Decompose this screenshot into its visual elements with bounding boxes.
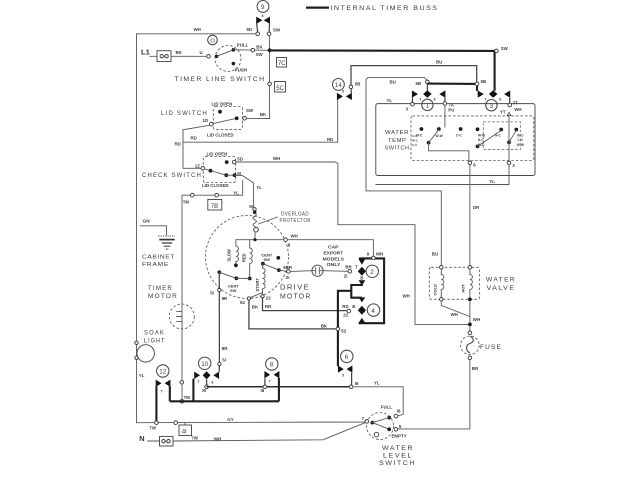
svg-text:PROTECTOR: PROTECTOR: [280, 218, 312, 224]
svg-text:LID OPEN: LID OPEN: [207, 151, 228, 156]
svg-text:4I: 4I: [182, 429, 187, 435]
svg-text:LIGHT: LIGHT: [144, 338, 166, 344]
svg-text:6BR: 6BR: [283, 265, 293, 270]
svg-text:VALVE: VALVE: [487, 285, 516, 292]
centrifugal switch left: [217, 270, 249, 293]
wire WH check switch to fuse branch: [236, 156, 470, 325]
svg-text:5B: 5B: [416, 81, 422, 86]
svg-text:U: U: [200, 50, 203, 55]
svg-text:7W: 7W: [191, 436, 198, 441]
wire BK motor to contact 6 spine: [249, 300, 337, 329]
svg-text:I8: I8: [261, 388, 265, 393]
fuse: [461, 331, 502, 371]
svg-text:YL: YL: [256, 185, 262, 190]
svg-text:T: T: [355, 264, 358, 269]
motor winding SLOW: [227, 240, 239, 267]
contact 14: [333, 79, 361, 101]
wire 8R motor to contact 10: [210, 272, 228, 365]
wire DR to hot valve: [470, 165, 480, 266]
connector box 7C: [277, 58, 287, 68]
svg-text:START: START: [255, 278, 260, 292]
svg-text:7T: 7T: [513, 100, 518, 105]
wire YL to water level switch full: [353, 380, 403, 416]
svg-text:SW: SW: [273, 27, 281, 32]
wire GY bottom: [137, 417, 367, 430]
svg-text:TM: TM: [183, 199, 190, 204]
svg-text:O: O: [210, 39, 215, 45]
contact 6: [338, 350, 359, 388]
svg-text:MODELS: MODELS: [323, 256, 345, 261]
svg-text:W-C: W-C: [412, 139, 419, 143]
svg-text:SW: SW: [246, 108, 254, 113]
svg-text:BR: BR: [472, 366, 479, 371]
connector L1: [141, 48, 171, 62]
svg-text:7A: 7A: [448, 102, 454, 107]
svg-text:MOTOR: MOTOR: [148, 293, 178, 300]
svg-text:YL: YL: [374, 380, 380, 385]
motor winding START: [255, 265, 271, 301]
svg-text:N: N: [139, 434, 144, 443]
svg-text:T: T: [419, 97, 421, 101]
water level switch: [362, 404, 416, 467]
drive motor body: [206, 216, 312, 301]
svg-text:WH: WH: [194, 27, 201, 32]
svg-text:FUSE: FUSE: [480, 344, 502, 351]
bus I6: [207, 385, 352, 393]
svg-text:SW: SW: [264, 257, 271, 262]
legend: internal timer buss: [306, 5, 439, 12]
wire RD motor to contact 4: [263, 298, 348, 311]
svg-text:W-W: W-W: [436, 134, 444, 138]
svg-text:5I: 5I: [210, 290, 214, 295]
water valve: [429, 266, 516, 302]
svg-text:5: 5: [342, 373, 344, 377]
svg-text:CAP: CAP: [328, 245, 339, 250]
centrifugal switch right: [261, 252, 293, 280]
svg-text:HOT: HOT: [461, 284, 466, 293]
svg-text:DR: DR: [473, 205, 480, 210]
svg-text:BU: BU: [436, 60, 442, 65]
svg-text:RD: RD: [327, 137, 333, 142]
svg-text:WH: WH: [473, 317, 480, 322]
wire YL check switch M to motor overload: [233, 175, 262, 207]
svg-text:BU: BU: [390, 79, 396, 84]
contact 8: [264, 358, 279, 402]
svg-text:1Z: 1Z: [195, 163, 200, 168]
svg-text:LEVEL: LEVEL: [383, 453, 413, 459]
svg-text:BK: BK: [256, 45, 263, 50]
wire vertical x=269.6 (SW down to lid switch): [246, 36, 271, 119]
wire BU thin (left vert to contact 1): [366, 78, 427, 191]
svg-text:FULL: FULL: [381, 404, 393, 409]
wire BU to cold valve: [366, 191, 441, 266]
wire RD (contact 14 drop to lid switch): [183, 100, 338, 142]
svg-text:MOTOR: MOTOR: [280, 293, 312, 300]
contact 10: [193, 357, 219, 401]
svg-text:WH: WH: [514, 107, 521, 112]
heavy bus contacts 12/10/8: [170, 400, 279, 402]
svg-text:BK: BK: [260, 112, 267, 117]
svg-text:RD: RD: [265, 304, 271, 309]
wire RD lid switch to check switch: [175, 125, 210, 168]
lid switch: [161, 101, 254, 137]
svg-text:8: 8: [499, 97, 501, 101]
connector box 4I: [179, 423, 192, 436]
svg-text:T: T: [485, 97, 487, 101]
svg-text:8: 8: [262, 14, 264, 18]
wire YL water temp switch: [376, 165, 509, 185]
svg-text:PU: PU: [448, 108, 454, 113]
timer line switch: [175, 35, 266, 83]
svg-text:WATER: WATER: [382, 446, 414, 452]
svg-text:SOAK: SOAK: [144, 331, 165, 337]
svg-text:CABINET: CABINET: [142, 254, 175, 260]
contact 12: [156, 365, 171, 423]
svg-text:2: 2: [370, 269, 374, 276]
svg-text:TIMER: TIMER: [148, 285, 173, 292]
capacitor: [290, 245, 348, 277]
svg-text:SW: SW: [501, 46, 509, 51]
svg-text:8: 8: [434, 97, 436, 101]
svg-text:RED: RED: [241, 253, 246, 262]
wire TM timer motor branch: [182, 181, 243, 402]
svg-text:22: 22: [266, 296, 271, 301]
svg-text:YL: YL: [139, 373, 145, 378]
svg-text:5I: 5I: [222, 357, 226, 362]
svg-text:BK: BK: [321, 323, 328, 328]
contact 9: [247, 1, 281, 36]
svg-text:OVERLOAD: OVERLOAD: [281, 212, 309, 218]
svg-text:T: T: [197, 380, 199, 384]
svg-text:SW: SW: [256, 52, 264, 57]
svg-text:5D: 5D: [237, 156, 243, 161]
terminal 92: [240, 293, 263, 306]
svg-text:5C: 5C: [276, 86, 284, 92]
svg-text:W-W: W-W: [517, 143, 525, 147]
svg-text:GY: GY: [227, 417, 233, 422]
svg-text:WH: WH: [273, 156, 280, 161]
svg-text:C-C: C-C: [412, 143, 418, 147]
svg-text:I6: I6: [202, 388, 206, 393]
svg-text:10: 10: [201, 361, 208, 368]
svg-text:WH: WH: [214, 436, 221, 441]
svg-text:22: 22: [343, 313, 348, 318]
soak light: [135, 331, 166, 379]
svg-text:WH: WH: [403, 293, 410, 298]
svg-text:INTERNAL TIMER BUSS: INTERNAL TIMER BUSS: [331, 5, 439, 12]
svg-text:RD: RD: [175, 141, 181, 146]
svg-text:RD: RD: [342, 304, 348, 309]
svg-text:I6: I6: [397, 408, 401, 413]
svg-text:SLOW: SLOW: [227, 249, 232, 261]
svg-text:DRIVE: DRIVE: [280, 284, 310, 291]
wire fuse to water level switch: [398, 360, 470, 429]
svg-text:8R: 8R: [222, 346, 228, 351]
svg-text:YL: YL: [387, 98, 393, 103]
svg-text:COLD: COLD: [432, 284, 437, 295]
svg-text:2I: 2I: [344, 274, 348, 279]
svg-text:1: 1: [426, 103, 430, 110]
svg-text:12: 12: [159, 369, 166, 376]
svg-text:SW: SW: [230, 288, 237, 293]
svg-text:WH: WH: [291, 233, 298, 238]
svg-text:C-C: C-C: [456, 133, 462, 137]
svg-text:BK: BK: [176, 50, 183, 55]
svg-text:LID CLOSED: LID CLOSED: [207, 133, 234, 138]
svg-text:52: 52: [341, 328, 346, 333]
svg-text:TEMP: TEMP: [388, 138, 407, 144]
svg-text:WH: WH: [376, 252, 383, 257]
overload protector: [249, 204, 311, 240]
wire WH motor internal: [236, 233, 298, 247]
wire 5B heavy link: [427, 79, 486, 91]
svg-text:3: 3: [490, 103, 494, 110]
contact 1: [406, 80, 455, 113]
svg-text:WH: WH: [451, 312, 458, 317]
svg-text:WATER: WATER: [385, 130, 409, 136]
svg-text:6: 6: [345, 354, 349, 361]
svg-text:4: 4: [371, 308, 375, 315]
svg-text:PULL: PULL: [237, 42, 249, 47]
wire BK L1 to switch: [171, 50, 207, 57]
svg-text:LID CLOSED: LID CLOSED: [202, 183, 229, 188]
connector box 5C: [275, 82, 286, 93]
svg-text:EXPORT: EXPORT: [324, 250, 344, 255]
svg-text:M: M: [249, 204, 253, 209]
water temp switch interior: [412, 105, 525, 168]
svg-text:W-W: W-W: [478, 134, 486, 138]
wire WH top (9D to left spine): [137, 27, 256, 34]
svg-text:EMPTY: EMPTY: [392, 434, 407, 439]
svg-text:9: 9: [261, 4, 265, 11]
contact 3: [478, 90, 522, 115]
svg-text:TM: TM: [184, 395, 191, 400]
svg-text:WATER: WATER: [486, 277, 516, 284]
svg-text:SWITCH: SWITCH: [385, 146, 410, 152]
svg-text:92: 92: [240, 300, 245, 305]
svg-text:YT: YT: [500, 109, 506, 114]
svg-text:YL: YL: [489, 179, 495, 184]
svg-text:SWITCH: SWITCH: [379, 461, 416, 467]
svg-text:7W: 7W: [149, 425, 156, 430]
motor winding RED: [241, 240, 252, 281]
wire BK/SW to buss junction: [233, 45, 269, 57]
svg-text:L1: L1: [141, 48, 151, 57]
svg-text:B: B: [352, 304, 355, 309]
svg-text:BU: BU: [432, 251, 438, 256]
timer motor: [148, 285, 194, 403]
svg-text:I6: I6: [355, 381, 359, 386]
heavy link contacts 2/4 to 6: [336, 284, 362, 366]
svg-text:1D: 1D: [203, 118, 209, 123]
svg-text:TIMER LINE SWITCH: TIMER LINE SWITCH: [175, 76, 266, 83]
svg-text:RD: RD: [191, 136, 197, 141]
svg-text:BK: BK: [252, 305, 259, 310]
wire WH valve commons to fuse: [441, 301, 480, 331]
wire BU contact 14 to 5B: [351, 60, 477, 86]
svg-text:5B: 5B: [355, 82, 361, 87]
connector box 7B: [208, 200, 222, 211]
contact 2: [344, 252, 384, 324]
ground / cabinet frame: [140, 218, 175, 268]
svg-text:14: 14: [335, 82, 342, 89]
svg-text:8R: 8R: [222, 296, 228, 301]
svg-text:T: T: [161, 390, 163, 394]
wire WH motor to contact 2: [287, 240, 373, 256]
svg-text:8: 8: [342, 89, 344, 93]
water temp switch box: [376, 98, 535, 176]
svg-text:5B: 5B: [481, 79, 487, 84]
svg-text:7: 7: [269, 380, 271, 384]
contact 4: [342, 297, 379, 323]
wire left spine vertical: [136, 34, 138, 423]
svg-text:BR: BR: [345, 264, 352, 269]
svg-text:8: 8: [212, 380, 214, 384]
svg-text:9D: 9D: [247, 27, 253, 32]
svg-text:GN: GN: [143, 218, 151, 224]
svg-text:7C: 7C: [278, 61, 286, 67]
svg-text:ONLY: ONLY: [327, 262, 341, 267]
neutral N line: [139, 422, 365, 446]
internal timer buss heavy wire: [270, 46, 509, 91]
svg-text:H-C: H-C: [412, 134, 418, 138]
svg-text:2I: 2I: [286, 275, 290, 280]
svg-text:7B: 7B: [211, 204, 218, 210]
svg-text:B: B: [360, 275, 363, 280]
check switch: [142, 151, 243, 188]
svg-text:PUSH: PUSH: [235, 68, 247, 73]
svg-text:CHECK SWITCH: CHECK SWITCH: [142, 172, 202, 179]
svg-text:LID SWITCH: LID SWITCH: [161, 110, 208, 117]
svg-text:8: 8: [270, 362, 274, 369]
svg-text:FRAME: FRAME: [142, 262, 169, 268]
svg-text:LID OPEN: LID OPEN: [212, 101, 233, 106]
